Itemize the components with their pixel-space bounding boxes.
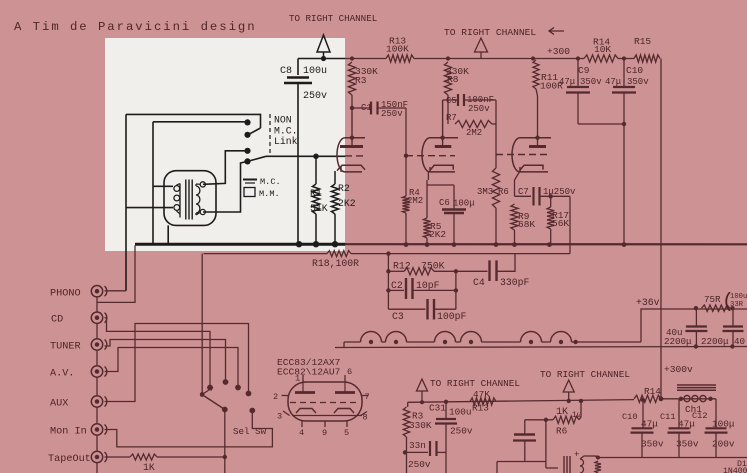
svg-text:C10: C10 (622, 412, 637, 422)
svg-text:R12: R12 (393, 261, 411, 272)
svg-text:47μ: 47μ (559, 77, 576, 87)
svg-text:1K: 1K (143, 462, 155, 473)
svg-text:10pF: 10pF (416, 280, 440, 291)
svg-text:PHONO: PHONO (50, 289, 81, 300)
svg-text:+: + (574, 450, 579, 460)
svg-text:250v: 250v (381, 109, 403, 119)
svg-text:CD: CD (51, 315, 63, 326)
svg-text:3: 3 (277, 412, 282, 422)
svg-text:R13: R13 (472, 403, 489, 414)
svg-text:M.M.: M.M. (259, 189, 280, 199)
svg-text:6: 6 (347, 367, 352, 377)
svg-text:250v: 250v (468, 104, 490, 114)
svg-text:R6: R6 (498, 187, 509, 197)
svg-text:1μ250v: 1μ250v (543, 187, 576, 197)
svg-text:4: 4 (299, 428, 304, 438)
svg-text:R2: R2 (338, 183, 350, 194)
svg-text:3M3: 3M3 (477, 187, 493, 197)
svg-text:R8: R8 (447, 74, 459, 85)
svg-text:5: 5 (344, 428, 349, 438)
svg-text:250v: 250v (408, 459, 431, 470)
svg-text:9: 9 (322, 428, 327, 438)
svg-text:100u: 100u (449, 407, 472, 418)
svg-text:75R: 75R (704, 294, 721, 305)
svg-text:100pF: 100pF (437, 311, 467, 322)
svg-text:R18,100R: R18,100R (312, 258, 359, 269)
svg-text:7: 7 (365, 392, 370, 402)
svg-text:C2: C2 (391, 280, 403, 291)
svg-text:M.C.: M.C. (260, 177, 281, 187)
svg-text:C11: C11 (660, 412, 675, 422)
svg-text:C8: C8 (280, 66, 292, 77)
svg-text:NON: NON (274, 115, 292, 126)
svg-text:C1: C1 (361, 103, 372, 113)
svg-text:TO RIGHT CHANNEL: TO RIGHT CHANNEL (289, 13, 377, 24)
svg-text:AUX: AUX (50, 399, 68, 410)
svg-text:51K: 51K (310, 203, 328, 214)
svg-text:1N4005: 1N4005 (723, 467, 747, 473)
svg-text:2200μ: 2200μ (664, 336, 692, 347)
svg-text:TO RIGHT CHANNEL: TO RIGHT CHANNEL (430, 378, 520, 389)
svg-text:100K: 100K (386, 44, 409, 55)
svg-text:A Tim de Paravicini design: A Tim de Paravicini design (14, 20, 257, 34)
svg-text:2M2: 2M2 (466, 128, 482, 138)
svg-text:2K2: 2K2 (338, 198, 356, 209)
svg-text:C10: C10 (626, 65, 643, 76)
svg-text:TO RIGHT CHANNEL: TO RIGHT CHANNEL (444, 27, 536, 38)
svg-text:1: 1 (295, 374, 300, 384)
svg-text:R3: R3 (355, 75, 367, 86)
svg-text:ECC82\12AU7: ECC82\12AU7 (277, 367, 340, 378)
svg-text:C6: C6 (439, 198, 450, 208)
svg-text:C3: C3 (392, 311, 404, 322)
svg-text:+300v: +300v (664, 364, 693, 375)
svg-text:C9: C9 (578, 65, 590, 76)
svg-text:47μ: 47μ (605, 77, 622, 87)
svg-text:+36v: +36v (636, 297, 660, 308)
svg-text:68K: 68K (518, 219, 535, 230)
svg-text:2200μ: 2200μ (701, 336, 729, 347)
svg-text:2M2: 2M2 (407, 196, 423, 206)
svg-text:100u: 100u (303, 66, 327, 77)
svg-text:350v: 350v (580, 77, 602, 87)
svg-text:750K: 750K (421, 261, 445, 272)
svg-text:M.C.: M.C. (274, 126, 298, 137)
svg-text:250v: 250v (450, 426, 473, 437)
svg-text:8: 8 (363, 413, 368, 423)
svg-text:A.V.: A.V. (50, 369, 74, 380)
svg-text:250v: 250v (303, 91, 327, 102)
svg-text:100u: 100u (730, 293, 747, 301)
svg-text:350v: 350v (641, 439, 664, 450)
svg-text:C7: C7 (518, 187, 529, 197)
svg-text:10K: 10K (594, 44, 611, 55)
svg-text:40: 40 (734, 336, 745, 347)
svg-text:TUNER: TUNER (50, 342, 81, 353)
svg-text:330pF: 330pF (500, 277, 530, 288)
svg-text:+300: +300 (547, 46, 570, 57)
svg-text:100μ: 100μ (453, 199, 475, 209)
svg-text:R1: R1 (310, 188, 322, 199)
svg-text:Sel Sw: Sel Sw (233, 426, 267, 437)
svg-text:C31: C31 (429, 403, 446, 414)
svg-text:330K: 330K (409, 420, 432, 431)
svg-text:350v: 350v (627, 77, 649, 87)
svg-text:56K: 56K (552, 218, 569, 229)
svg-text:TO RIGHT CHANNEL: TO RIGHT CHANNEL (540, 369, 630, 380)
svg-text:Mon In: Mon In (50, 427, 87, 438)
svg-text:2K2: 2K2 (429, 229, 446, 240)
svg-text:R14: R14 (644, 386, 661, 397)
svg-text:Link: Link (274, 136, 298, 147)
svg-text:R15: R15 (634, 36, 651, 47)
svg-text:33n: 33n (409, 440, 426, 451)
svg-text:TapeOut: TapeOut (48, 454, 91, 465)
svg-text:2: 2 (273, 392, 278, 402)
svg-text:R6: R6 (556, 426, 568, 437)
svg-text:C4: C4 (473, 277, 485, 288)
